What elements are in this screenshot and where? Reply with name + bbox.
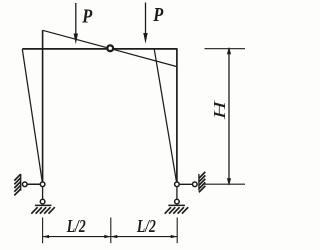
right support link circle: [193, 182, 198, 187]
right column: [176, 49, 178, 184]
left support ground line: [35, 204, 52, 206]
bottom dimension tick left: [42, 218, 44, 244]
left support ground hatching: [31, 207, 55, 214]
left support lower link: [42, 186, 44, 200]
left support wall line: [20, 174, 22, 191]
load arrow P2 shaft: [145, 3, 147, 36]
svg-text:P: P: [81, 6, 92, 28]
H dimension line: [228, 49, 230, 185]
H dimension arrow up: [227, 47, 231, 55]
left support roller circle: [40, 199, 45, 204]
svg-text:L/2: L/2: [136, 216, 156, 236]
right support link bar: [177, 183, 195, 185]
svg-text:H: H: [210, 99, 229, 121]
buckled beam line (diagonal through hinge): [43, 30, 177, 66]
H dimension bottom extension line: [204, 183, 245, 185]
svg-text:L/2: L/2: [66, 216, 86, 236]
right support ground hatching: [165, 207, 189, 214]
bottom dimension tick right: [176, 218, 178, 244]
bottom dimension line: [43, 236, 178, 238]
left support pin circle: [40, 182, 45, 187]
H dimension top extension line: [205, 48, 246, 50]
right support ground line: [168, 204, 185, 206]
right support wall hatching: [199, 172, 205, 192]
buckled right column: [154, 49, 177, 184]
load arrow P1 shaft: [75, 3, 77, 36]
hinge at beam midspan: [107, 45, 113, 51]
right support wall line: [198, 174, 200, 191]
H dimension arrow down: [227, 178, 231, 186]
left column: [42, 30, 44, 184]
right support roller circle: [175, 199, 180, 204]
buckled left column: [22, 49, 42, 184]
svg-text:P: P: [152, 4, 163, 26]
left support link bar: [25, 183, 43, 185]
right support lower link: [176, 186, 178, 200]
bottom dimension tick middle: [110, 218, 112, 244]
right support pin circle: [175, 182, 180, 187]
load arrow P1 head: [74, 34, 78, 45]
beam (top girder of frame): [22, 48, 177, 50]
left support wall hatching: [14, 174, 20, 195]
bottom dimension arrows: [43, 235, 50, 238]
load arrow P2 head: [143, 33, 147, 44]
left support link circle: [23, 182, 28, 187]
